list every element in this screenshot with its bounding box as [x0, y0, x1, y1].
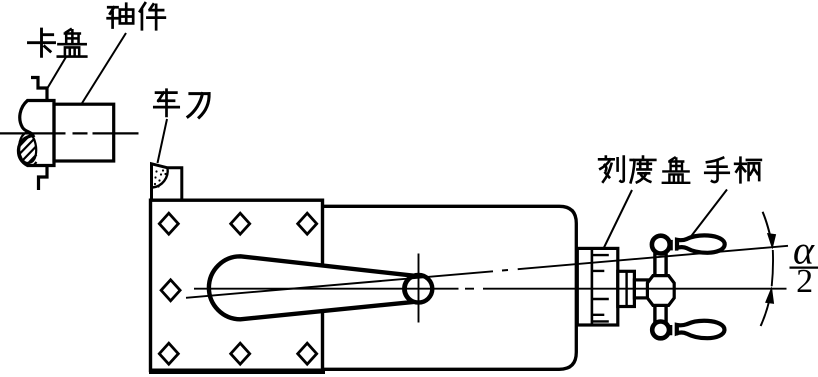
- bottom collar: [671, 325, 677, 336]
- saddle body rounded rectangle: [323, 206, 577, 369]
- top knob circle: [652, 236, 670, 254]
- tool block: [152, 164, 182, 200]
- front plate rectangle: [151, 200, 323, 370]
- svg-text:2: 2: [796, 263, 813, 300]
- bolt diamond bottom-left: [159, 343, 178, 364]
- handle hub octagon: [647, 276, 674, 306]
- label 刻度盘 (dial): [599, 157, 689, 183]
- bolt diamond mid-left: [161, 280, 180, 301]
- angle dimension top tail: [763, 212, 773, 245]
- leader line for dial label: [604, 190, 632, 248]
- top collar: [671, 240, 677, 251]
- pivot circle: [405, 275, 433, 303]
- step boss 1 inner line: [625, 271, 627, 306]
- angle dimension top arrowhead: [768, 234, 776, 248]
- workpiece shaft rectangle: [54, 104, 114, 161]
- angle dimension bottom tail: [761, 291, 772, 327]
- dial body: [577, 248, 618, 325]
- leader line for chuck label: [48, 57, 67, 88]
- bolt diamond bottom-right: [298, 343, 317, 364]
- bolt diamond top-left: [159, 213, 178, 234]
- bolt diamond bottom-mid: [231, 343, 250, 364]
- chuck body outline with wavy break line: [18, 101, 54, 166]
- spindle centerline (dash-dot): [0, 132, 139, 134]
- step boss 1: [618, 271, 635, 306]
- label 手柄 (handle): [705, 158, 761, 183]
- handle shaft upper: [655, 253, 666, 276]
- swivel teardrop outline: [209, 256, 414, 319]
- pivot vertical centerline: [418, 254, 420, 323]
- handle shaft lower: [655, 305, 666, 323]
- tilted axis line: [186, 246, 788, 298]
- bolt diamond top-right: [298, 213, 317, 234]
- angle dimension arc middle: [772, 250, 773, 286]
- dial inner vertical line: [591, 249, 594, 325]
- bottom knob circle: [652, 322, 669, 339]
- leader line for tool label: [158, 119, 168, 163]
- dial tick marks: [592, 255, 609, 321]
- bottom grip club: [677, 321, 725, 338]
- tool tip stipple dots: [154, 169, 167, 187]
- chuck section hatch blob: [19, 133, 37, 166]
- main horizontal centerline: [194, 288, 787, 290]
- label 轴件 (shaft workpiece): [108, 3, 165, 29]
- top grip club: [677, 235, 725, 252]
- label 卡盘 (chuck): [28, 29, 86, 56]
- chuck jaw bottom: [39, 166, 48, 191]
- chuck jaw top: [31, 78, 47, 101]
- front plate thick bottom edge: [149, 369, 325, 375]
- step boss 2: [634, 280, 647, 298]
- leader line for handle label: [689, 190, 727, 240]
- bolt diamond top-mid: [231, 213, 250, 234]
- label 车刀 (lathe tool): [154, 90, 209, 118]
- leader line for shaft label: [82, 33, 127, 104]
- angle dimension bottom arrowhead: [766, 289, 774, 304]
